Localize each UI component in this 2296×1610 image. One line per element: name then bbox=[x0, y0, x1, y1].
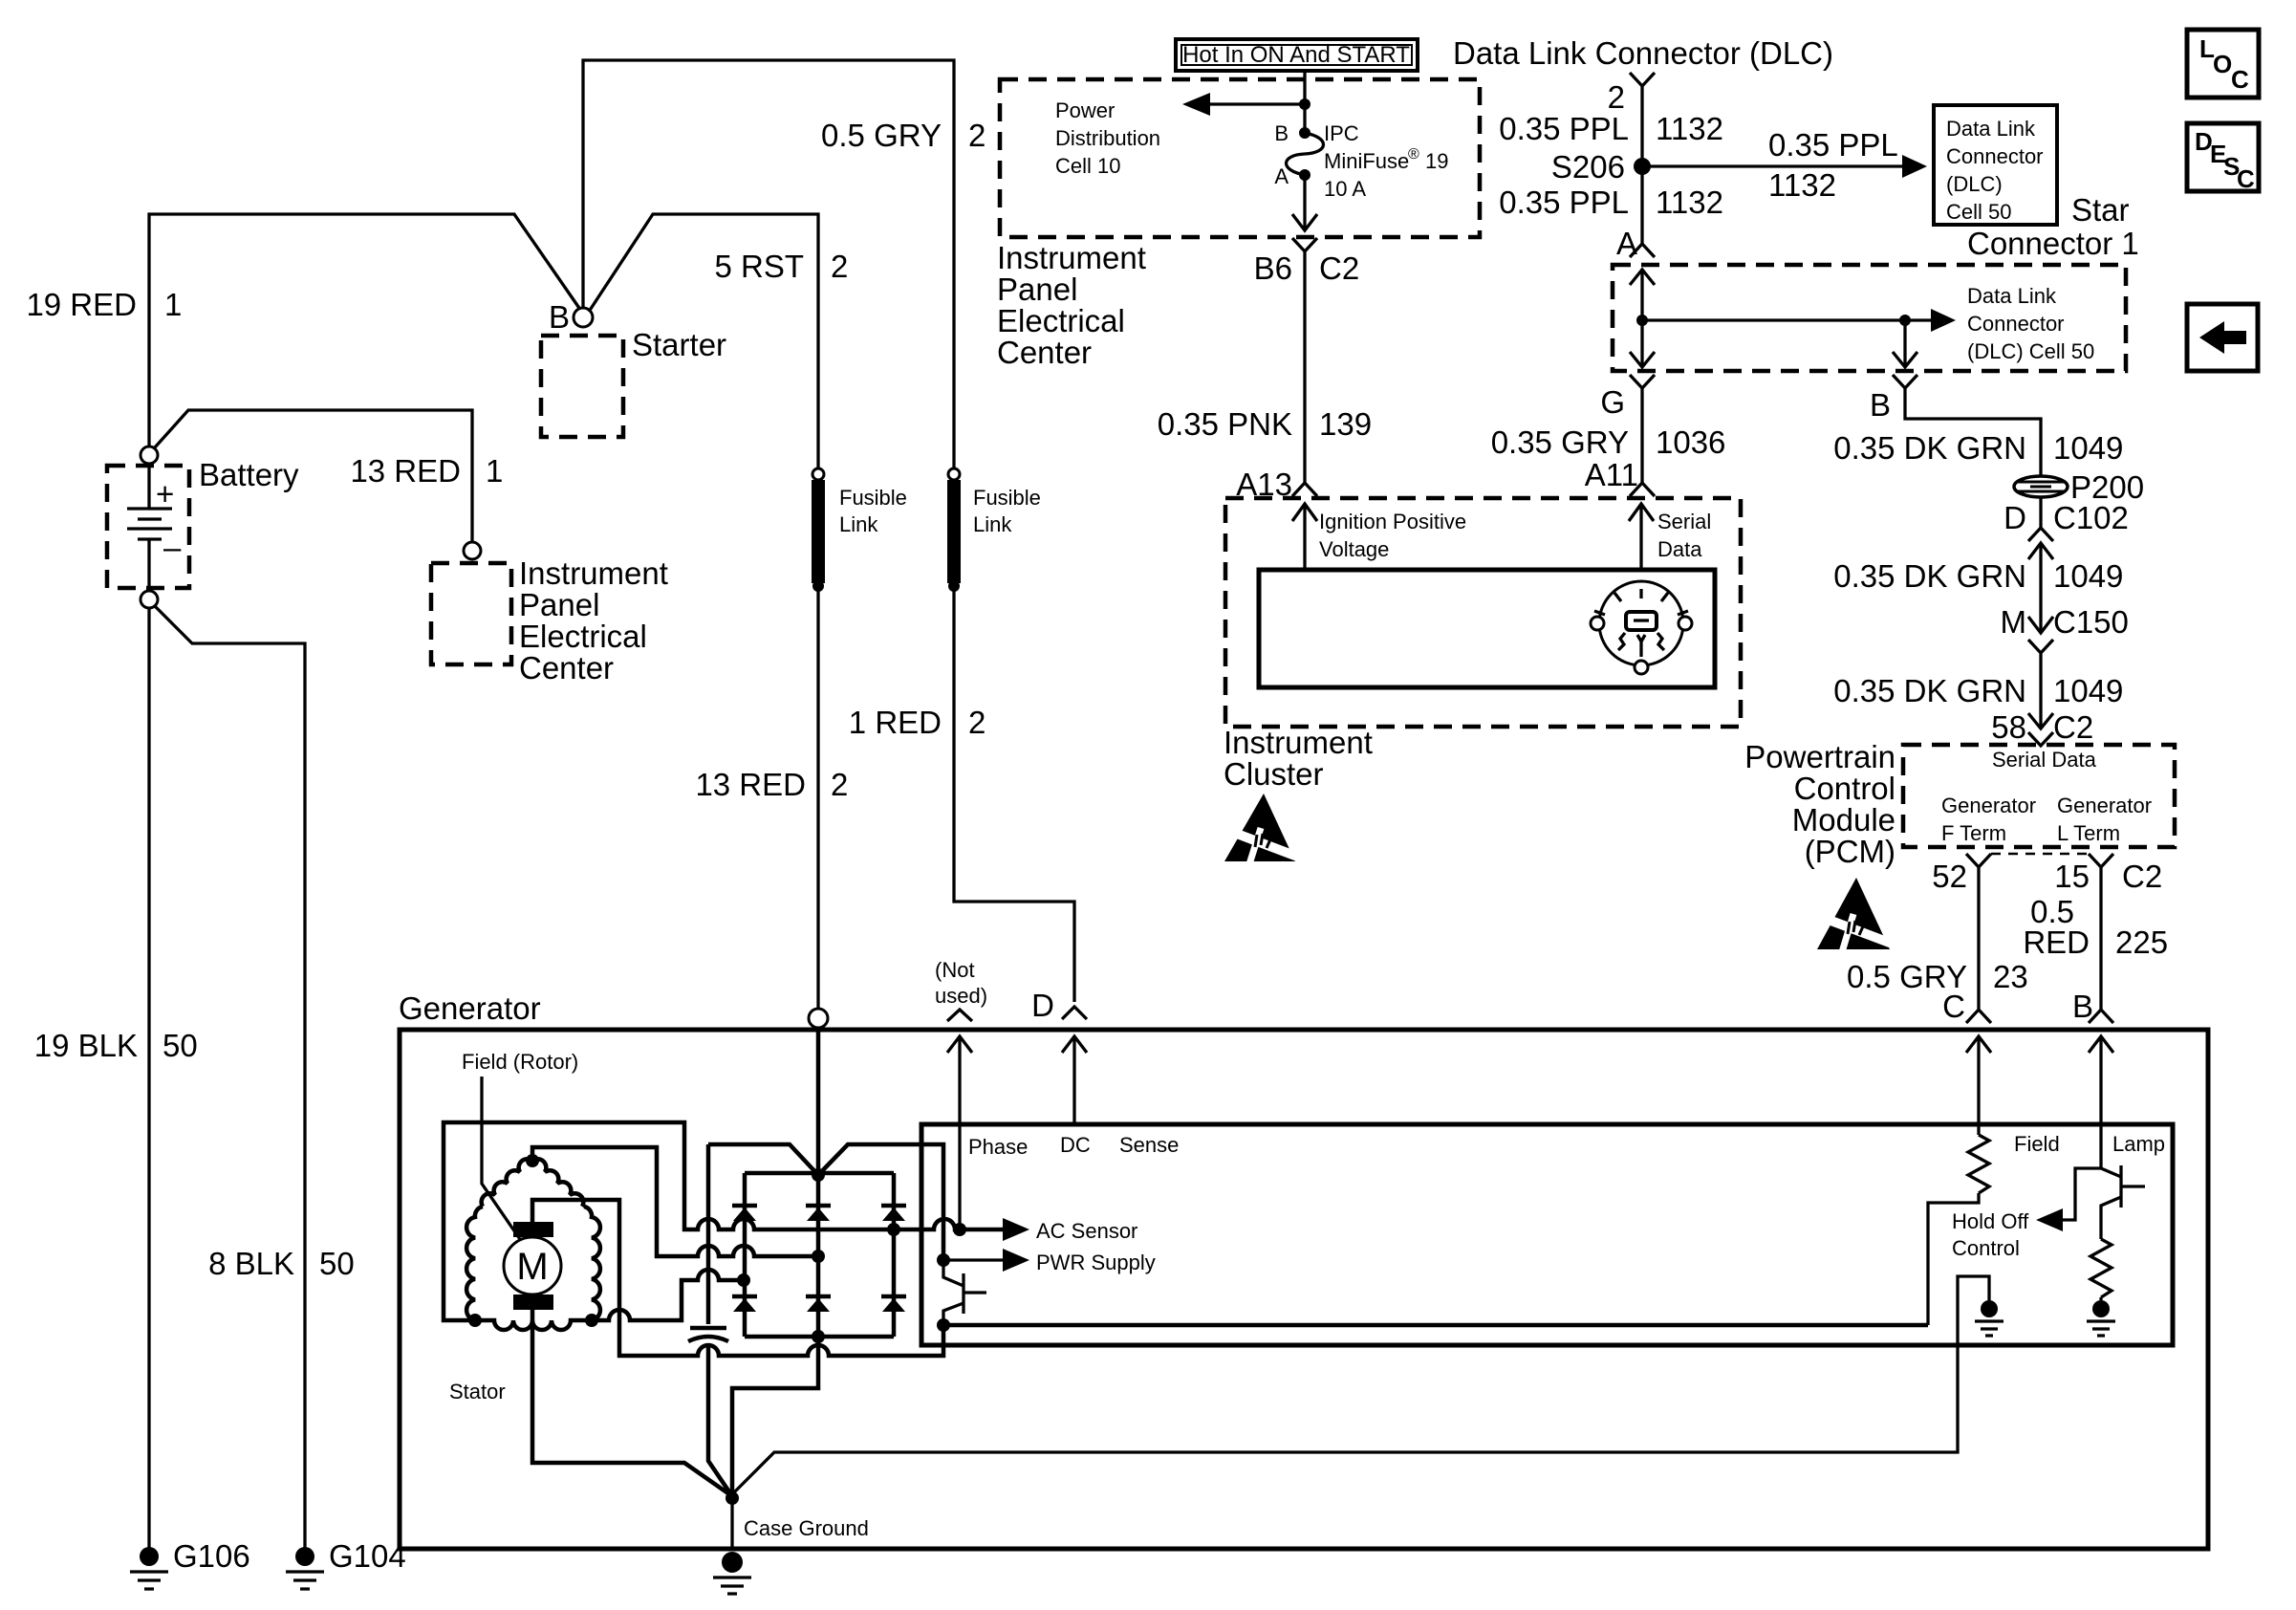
LOC reference box bbox=[2187, 30, 2259, 98]
back arrow reference box bbox=[2187, 304, 2258, 371]
svg-text:C: C bbox=[2237, 164, 2255, 193]
wire 8 BLK battery negative to G104 bbox=[155, 606, 305, 1549]
wire regulator emitter rail to field network bbox=[943, 1323, 1928, 1328]
rectifier top rail bbox=[745, 1171, 894, 1176]
svg-text:B: B bbox=[2072, 989, 2093, 1024]
svg-text:(Not: (Not bbox=[935, 958, 975, 982]
stator bottom left junction bbox=[468, 1314, 482, 1327]
svg-text:225: 225 bbox=[2115, 925, 2168, 960]
svg-text:1036: 1036 bbox=[1656, 424, 1725, 460]
svg-text:0.35 DK GRN: 0.35 DK GRN bbox=[1833, 430, 2026, 466]
connector 52 / 15 C2 below PCM bbox=[1966, 854, 1991, 1010]
ground G104 bbox=[295, 1547, 314, 1566]
svg-text:DC: DC bbox=[1060, 1133, 1091, 1157]
svg-text:0.35 DK GRN: 0.35 DK GRN bbox=[1833, 673, 2026, 708]
svg-text:2: 2 bbox=[968, 705, 986, 740]
svg-text:1132: 1132 bbox=[1656, 111, 1723, 146]
svg-text:Data Link: Data Link bbox=[1946, 117, 2036, 141]
ground lamp resistor bbox=[2092, 1300, 2110, 1317]
stator apex junction bbox=[526, 1154, 539, 1167]
ground hold off bbox=[1981, 1300, 1998, 1317]
svg-text:Battery: Battery bbox=[199, 457, 299, 492]
svg-text:Control: Control bbox=[1794, 771, 1895, 806]
Data Link Connector (DLC) Cell 50 box bbox=[1934, 105, 2057, 225]
star connector 1 dashed box bbox=[1613, 265, 2126, 371]
svg-text:C: C bbox=[2231, 65, 2249, 94]
svg-text:RED: RED bbox=[2023, 925, 2090, 960]
IPC MiniFuse 19 fuse F1 bbox=[1299, 127, 1310, 139]
svg-text:C2: C2 bbox=[2053, 709, 2093, 745]
svg-text:(PCM): (PCM) bbox=[1805, 834, 1895, 869]
svg-text:1: 1 bbox=[486, 453, 503, 489]
terminal circle generator BAT bbox=[809, 1009, 828, 1028]
svg-text:Data Link Connector (DLC): Data Link Connector (DLC) bbox=[1453, 35, 1833, 71]
svg-text:used): used) bbox=[935, 984, 987, 1008]
svg-text:Power: Power bbox=[1055, 98, 1115, 122]
terminal circle battery negative bbox=[141, 591, 158, 608]
svg-text:B6: B6 bbox=[1254, 250, 1292, 286]
junction dot phase3 diode column 3 bbox=[887, 1223, 900, 1236]
svg-text:–: – bbox=[163, 530, 182, 565]
stator bottom right junction bbox=[585, 1314, 598, 1327]
connector B6 C2 chevron bbox=[1292, 238, 1317, 483]
diode D1 top bbox=[732, 1204, 757, 1208]
svg-text:Data Link: Data Link bbox=[1967, 284, 2057, 308]
svg-text:58: 58 bbox=[1991, 709, 2026, 745]
phase wire with arrow inside generator bbox=[947, 1036, 972, 1229]
wire 13 RED fusible link to generator bbox=[816, 589, 819, 1009]
motor M rotor bbox=[504, 1237, 561, 1295]
svg-text:G106: G106 bbox=[173, 1538, 250, 1574]
svg-text:MiniFuse: MiniFuse bbox=[1324, 149, 1409, 173]
svg-text:B: B bbox=[1870, 387, 1891, 423]
svg-text:®: ® bbox=[1408, 146, 1419, 163]
svg-text:Data: Data bbox=[1657, 537, 1702, 561]
svg-text:Link: Link bbox=[973, 512, 1012, 536]
svg-text:Instrument: Instrument bbox=[519, 555, 668, 591]
diode D4 bottom bbox=[732, 1295, 757, 1299]
PWR supply junction dot bbox=[937, 1253, 950, 1267]
svg-text:Center: Center bbox=[997, 335, 1092, 370]
svg-text:D: D bbox=[1031, 988, 1054, 1023]
diode D6 bottom bbox=[881, 1295, 906, 1299]
diode column 2 wire from generator BAT bbox=[816, 1028, 821, 1337]
stator winding left side bbox=[466, 1207, 483, 1320]
svg-text:0.35 PPL: 0.35 PPL bbox=[1768, 127, 1898, 163]
junction dot phase1 diode column 1 bbox=[737, 1273, 750, 1287]
svg-text:0.35 DK GRN: 0.35 DK GRN bbox=[1833, 558, 2026, 594]
stator winding right side bbox=[584, 1207, 600, 1320]
svg-text:A11: A11 bbox=[1585, 457, 1638, 492]
case ground junction bbox=[726, 1491, 739, 1505]
svg-text:Electrical: Electrical bbox=[519, 619, 647, 654]
svg-text:Instrument: Instrument bbox=[997, 240, 1146, 275]
wire S206 to DLC cell 50 arrow bbox=[1642, 164, 1912, 167]
svg-text:1132: 1132 bbox=[1656, 185, 1723, 220]
svg-text:Generator: Generator bbox=[1941, 794, 2036, 817]
junction dot phase wire AC sensor bbox=[953, 1223, 966, 1236]
svg-text:0.35 PPL: 0.35 PPL bbox=[1499, 185, 1629, 220]
svg-text:Cell 10: Cell 10 bbox=[1055, 154, 1120, 178]
svg-text:Link: Link bbox=[839, 512, 878, 536]
wire phase 1 stator right to diode column 1 bbox=[592, 1270, 744, 1320]
svg-text:Fusible: Fusible bbox=[973, 486, 1041, 510]
svg-text:15: 15 bbox=[2054, 859, 2090, 894]
svg-text:Electrical: Electrical bbox=[997, 303, 1125, 338]
terminal circle IPEC 13 RED bbox=[464, 542, 481, 559]
svg-text:1049: 1049 bbox=[2053, 673, 2123, 708]
svg-text:0.5 GRY: 0.5 GRY bbox=[821, 118, 942, 153]
PWR supply arrow bbox=[943, 1258, 1007, 1261]
svg-text:Hold Off: Hold Off bbox=[1952, 1209, 2029, 1233]
connector D C102 bbox=[2039, 497, 2042, 528]
capacitor C1 bbox=[706, 1144, 711, 1324]
field wire with arrow inside generator bbox=[1966, 1036, 1991, 1135]
svg-text:Field: Field bbox=[2014, 1132, 2060, 1156]
svg-text:B: B bbox=[1274, 121, 1289, 145]
transistor Q1 regulator bbox=[943, 1260, 964, 1286]
wire 1 RED fusible link to generator D bbox=[954, 589, 1074, 1002]
svg-text:M: M bbox=[2001, 604, 2027, 640]
svg-text:2: 2 bbox=[831, 767, 848, 802]
wire 5 RST from starter B to fusible link bbox=[589, 214, 818, 468]
svg-text:19 BLK: 19 BLK bbox=[34, 1028, 138, 1063]
DLC pin 2 connector cup bbox=[1630, 73, 1655, 244]
svg-text:Lamp: Lamp bbox=[2112, 1132, 2165, 1156]
svg-text:Ignition Positive: Ignition Positive bbox=[1319, 510, 1466, 533]
svg-text:Control: Control bbox=[1952, 1236, 2020, 1260]
svg-text:1049: 1049 bbox=[2053, 430, 2123, 466]
wire rectifier center to case ground bbox=[732, 1337, 818, 1498]
Hot In ON And START box bbox=[1176, 39, 1418, 71]
DESC reference box bbox=[2187, 123, 2259, 191]
svg-text:G104: G104 bbox=[329, 1538, 406, 1574]
svg-text:G: G bbox=[1600, 384, 1625, 420]
svg-text:Center: Center bbox=[519, 650, 614, 685]
svg-text:(DLC): (DLC) bbox=[1946, 172, 2003, 196]
wire motor top brush to regulator bbox=[532, 1200, 943, 1356]
svg-text:Voltage: Voltage bbox=[1319, 537, 1389, 561]
connector G below star box bbox=[1630, 375, 1655, 483]
svg-text:Generator: Generator bbox=[399, 990, 541, 1026]
wire hot feed into fuse bbox=[1303, 71, 1306, 128]
generator box bbox=[400, 1030, 2208, 1549]
wire from starter B up to 0.5 GRY feed bbox=[583, 60, 954, 468]
svg-text:0.35 PPL: 0.35 PPL bbox=[1499, 111, 1629, 146]
svg-text:Connector: Connector bbox=[1967, 312, 2065, 336]
svg-text:C2: C2 bbox=[1319, 250, 1359, 286]
wire 19 BLK battery negative to G106 bbox=[147, 608, 150, 1549]
svg-text:Serial Data: Serial Data bbox=[1992, 748, 2097, 772]
ESD symbol PCM bbox=[1813, 878, 1895, 952]
svg-text:Stator: Stator bbox=[449, 1380, 506, 1403]
svg-text:0.35 PNK: 0.35 PNK bbox=[1158, 406, 1292, 442]
svg-text:F Term: F Term bbox=[1941, 821, 2006, 845]
svg-text:A: A bbox=[1274, 164, 1289, 188]
resistor R2 lamp bbox=[2090, 1239, 2112, 1300]
ground case ground symbol bbox=[722, 1552, 743, 1573]
instrument cluster dashed box bbox=[1225, 498, 1741, 727]
diode column 1 bbox=[743, 1173, 747, 1337]
emitter junction dot bbox=[937, 1318, 950, 1332]
diode D5 bottom bbox=[806, 1295, 831, 1299]
battery B1 dashed box bbox=[107, 466, 189, 588]
svg-text:1 RED: 1 RED bbox=[849, 705, 942, 740]
svg-text:8 BLK: 8 BLK bbox=[208, 1246, 294, 1281]
instrument cluster inner box bbox=[1259, 570, 1715, 687]
wire motor bottom brush to case ground bbox=[532, 1310, 732, 1496]
svg-text:52: 52 bbox=[1932, 859, 1967, 894]
wire outer loop phase 3 to AC sensor line bbox=[444, 1122, 960, 1320]
rectifier bottom rail bbox=[745, 1335, 894, 1339]
svg-text:1132: 1132 bbox=[1768, 167, 1836, 203]
svg-text:Cell 50: Cell 50 bbox=[1946, 200, 2011, 224]
svg-text:13 RED: 13 RED bbox=[695, 767, 806, 802]
svg-text:IPC: IPC bbox=[1324, 121, 1359, 145]
wire hold off ground to case ground bbox=[732, 1276, 1989, 1494]
diode column 3 bbox=[892, 1173, 897, 1337]
svg-text:M: M bbox=[516, 1246, 548, 1288]
gauge symbol bbox=[1599, 581, 1683, 665]
ESD symbol instrument cluster bbox=[1222, 794, 1300, 864]
svg-text:O: O bbox=[2213, 50, 2232, 78]
svg-text:10 A: 10 A bbox=[1324, 177, 1366, 201]
svg-text:13 RED: 13 RED bbox=[350, 453, 461, 489]
transistor Q2 lamp driver bbox=[2101, 1168, 2121, 1177]
motor brushes bbox=[513, 1222, 553, 1237]
resistor R1 field bbox=[1928, 1135, 1989, 1325]
B plus V junction bbox=[812, 1168, 825, 1182]
arrow to power distribution bbox=[1197, 102, 1305, 105]
starter dashed box bbox=[541, 336, 623, 437]
PCM dashed box bbox=[1903, 745, 2175, 847]
svg-text:B: B bbox=[549, 299, 570, 335]
starter terminal B circle bbox=[574, 308, 593, 327]
svg-text:139: 139 bbox=[1319, 406, 1372, 442]
wire 19 RED battery positive to starter B bbox=[149, 214, 583, 453]
junction dot bottom rail bbox=[812, 1330, 825, 1343]
wire apex phase 2 to diode column 2 bbox=[532, 1147, 818, 1256]
DC wire with arrow inside generator bbox=[1062, 1036, 1087, 1124]
svg-text:50: 50 bbox=[162, 1028, 198, 1063]
svg-text:Fusible: Fusible bbox=[839, 486, 907, 510]
svg-text:50: 50 bbox=[319, 1246, 355, 1281]
svg-text:C2: C2 bbox=[2122, 859, 2162, 894]
svg-text:2: 2 bbox=[831, 249, 848, 284]
wire fuse A down with arrow bbox=[1303, 175, 1306, 230]
svg-text:Case Ground: Case Ground bbox=[744, 1516, 869, 1540]
connector B below star box bbox=[1893, 375, 2041, 476]
lamp wire with arrow inside generator bbox=[2089, 1036, 2113, 1168]
splice P200 bbox=[2014, 476, 2068, 497]
svg-text:Panel: Panel bbox=[519, 587, 599, 622]
diode D2 top bbox=[806, 1204, 831, 1208]
svg-text:Connector: Connector bbox=[1946, 144, 2044, 168]
svg-text:Distribution: Distribution bbox=[1055, 126, 1160, 150]
svg-text:Connector 1: Connector 1 bbox=[1967, 226, 2139, 261]
svg-text:2: 2 bbox=[1608, 79, 1625, 115]
svg-text:Instrument: Instrument bbox=[1224, 725, 1373, 760]
svg-text:Serial: Serial bbox=[1657, 510, 1711, 533]
svg-text:AC Sensor: AC Sensor bbox=[1036, 1219, 1137, 1243]
instrument panel electrical center dashed box (power distribution) bbox=[1000, 79, 1480, 237]
svg-text:Star: Star bbox=[2071, 192, 2130, 228]
svg-text:A: A bbox=[1616, 226, 1637, 261]
svg-text:+: + bbox=[156, 476, 174, 511]
svg-text:PWR Supply: PWR Supply bbox=[1036, 1251, 1156, 1274]
stator winding bottom bbox=[475, 1320, 592, 1330]
hold off control arrow bbox=[2057, 1168, 2101, 1220]
stator winding left diagonal bbox=[482, 1159, 532, 1207]
A11 arrow into cluster serial data bbox=[1629, 504, 1654, 570]
svg-text:Panel: Panel bbox=[997, 272, 1077, 307]
svg-text:C150: C150 bbox=[2053, 604, 2129, 640]
svg-text:Sense: Sense bbox=[1119, 1133, 1179, 1157]
svg-text:Hot In ON And START: Hot In ON And START bbox=[1182, 42, 1410, 68]
svg-text:D: D bbox=[2004, 500, 2026, 535]
svg-text:C: C bbox=[1942, 989, 1965, 1024]
svg-text:Phase: Phase bbox=[968, 1135, 1028, 1159]
svg-text:L Term: L Term bbox=[2057, 821, 2120, 845]
terminal circle battery positive bbox=[141, 446, 158, 464]
svg-text:1: 1 bbox=[164, 287, 182, 322]
ground G106 bbox=[140, 1547, 159, 1566]
junction dot phase2 diode column 2 bbox=[812, 1250, 825, 1263]
svg-text:19: 19 bbox=[1425, 149, 1448, 173]
svg-text:0.35 GRY: 0.35 GRY bbox=[1491, 424, 1629, 460]
diode D3 top bbox=[881, 1204, 906, 1208]
fusible link 2 bbox=[948, 468, 960, 480]
svg-text:Cluster: Cluster bbox=[1224, 756, 1324, 792]
fusible link 1 bbox=[812, 468, 824, 480]
svg-text:Module: Module bbox=[1792, 802, 1895, 838]
svg-text:Generator: Generator bbox=[2057, 794, 2152, 817]
wire 13 RED battery positive to instrument panel electrical center bbox=[155, 410, 472, 541]
svg-text:Powertrain: Powertrain bbox=[1744, 739, 1895, 774]
svg-text:23: 23 bbox=[1993, 959, 2028, 994]
svg-text:(DLC) Cell 50: (DLC) Cell 50 bbox=[1967, 339, 2094, 363]
svg-text:Field (Rotor): Field (Rotor) bbox=[462, 1050, 578, 1074]
svg-text:Starter: Starter bbox=[632, 327, 726, 362]
svg-text:5 RST: 5 RST bbox=[714, 249, 804, 284]
voltage regulator box bbox=[921, 1124, 2173, 1345]
svg-text:2: 2 bbox=[968, 118, 986, 153]
star connector internal wire with arrows bbox=[1640, 269, 1643, 367]
stator winding right diagonal bbox=[532, 1159, 583, 1207]
svg-text:1049: 1049 bbox=[2053, 558, 2123, 594]
instrument panel electrical center dashed box left bbox=[431, 563, 511, 664]
A13 arrow into cluster bbox=[1292, 504, 1317, 570]
svg-text:C102: C102 bbox=[2053, 500, 2129, 535]
battery symbol bbox=[147, 464, 150, 509]
AC sensor arrow bbox=[960, 1228, 1007, 1232]
svg-text:S206: S206 bbox=[1551, 149, 1625, 185]
svg-text:19 RED: 19 RED bbox=[26, 287, 137, 322]
